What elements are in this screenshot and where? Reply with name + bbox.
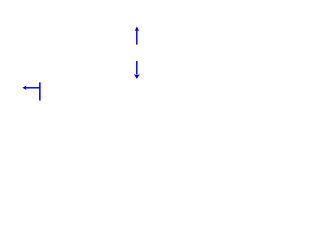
current direction arrow (up) [135,26,139,44]
current direction arrow (down) [134,61,140,79]
capacitor plate [39,82,41,100]
current direction arrow (left) on wire [22,86,39,91]
